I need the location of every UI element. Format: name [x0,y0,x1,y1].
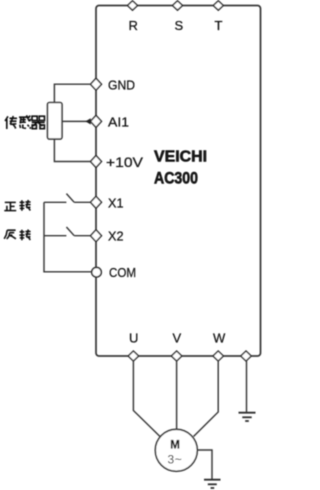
label 正转 (forward) [4,200,30,211]
svg-text:AI1: AI1 [108,114,129,129]
terminal W [213,351,223,361]
switch S2 (反转) lead from X2 [74,235,90,237]
switch S1 blade [66,194,74,203]
terminal R [128,1,138,10]
terminal GND [91,78,102,90]
ground PE symbol [239,413,256,421]
svg-text:VEICHI: VEICHI [154,149,207,166]
terminal X1 [91,196,102,208]
switch S2 blade [66,227,74,236]
svg-text:M: M [170,440,180,452]
label 传感器 (sensor) [5,115,45,129]
terminal PE [241,351,251,361]
svg-text:AC300: AC300 [154,169,198,188]
svg-text:X1: X1 [108,195,124,210]
terminal X2 [91,230,102,242]
inverter U1 (VEICHI AC300) outline [96,6,261,357]
terminal COM [92,267,102,277]
svg-text:X2: X2 [108,229,124,244]
label 反转 (reverse) [4,230,30,241]
svg-text:U: U [129,331,138,346]
terminal T [213,1,223,10]
ground motor symbol [204,480,221,488]
svg-text:3~: 3~ [168,453,182,467]
terminal V [171,351,181,361]
wire wiper to AI1 [62,120,91,122]
wiper arrowhead [85,118,91,124]
svg-text:W: W [213,331,226,346]
switch S1 (正转) lead from X1 [74,201,90,203]
terminal AI1 [91,115,102,127]
svg-text:T: T [215,18,223,33]
svg-text:V: V [173,331,182,346]
terminal S [173,1,183,10]
svg-text:COM: COM [109,265,136,280]
svg-text:GND: GND [108,77,135,92]
wire W to motor [194,361,219,437]
svg-text:R: R [129,18,138,33]
terminal U [128,351,138,361]
wire sensor bottom to +10V [54,139,91,161]
wire PE to ground [246,361,248,412]
switch S2 left lead [44,235,66,237]
motor M1 circle [155,429,197,471]
switch S1 left lead [44,201,66,203]
wire GND to sensor top [54,84,91,102]
wire motor to ground [197,450,212,479]
terminal +10V [91,156,102,168]
wire V to motor [176,361,178,429]
wire U to motor [133,361,160,437]
svg-text:+10V: +10V [106,155,143,170]
wire common vertical to COM [44,202,92,271]
svg-text:S: S [175,18,184,33]
potentiometer RP1 (sensor) body [48,103,63,140]
